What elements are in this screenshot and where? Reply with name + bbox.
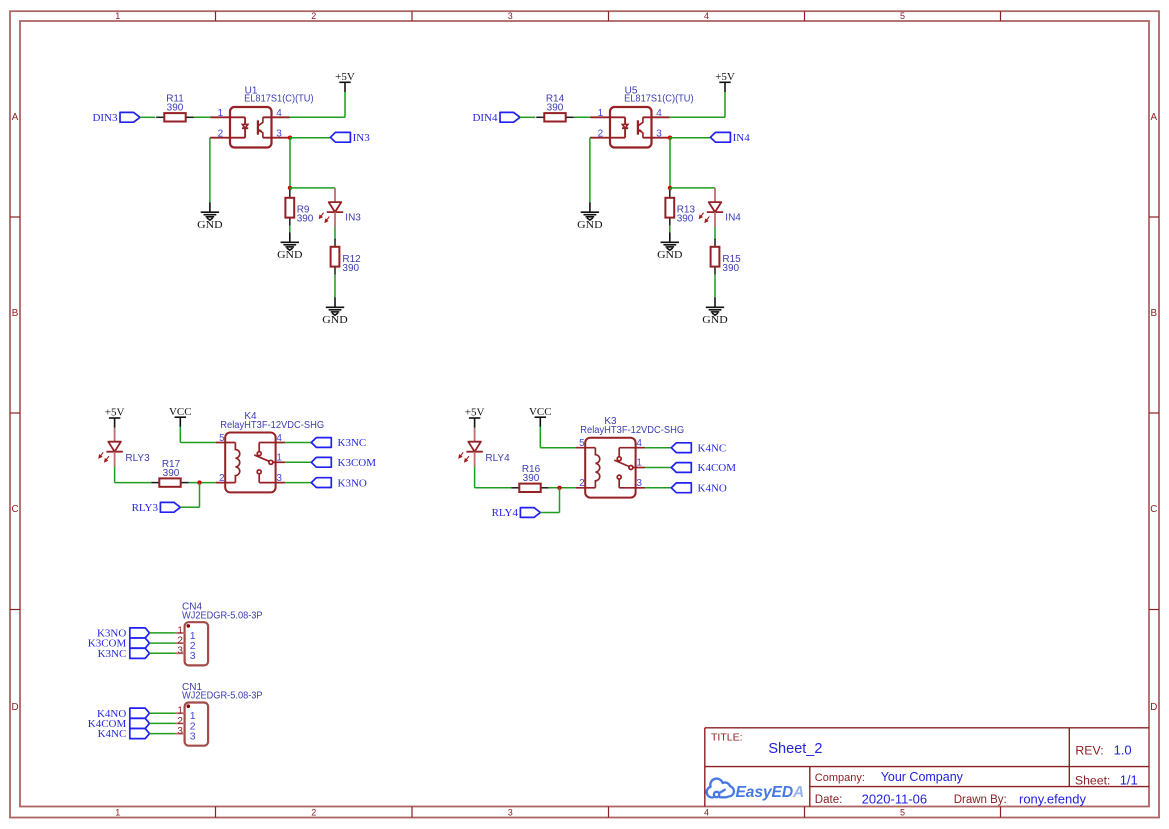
svg-text:RLY4: RLY4 xyxy=(485,453,510,464)
svg-text:5: 5 xyxy=(219,433,225,444)
resistor R9 390 xyxy=(285,190,313,226)
resistor R13 390 xyxy=(665,190,695,226)
wire LED to R xyxy=(714,227,716,240)
title text Company xyxy=(815,770,964,784)
net port K4NC xyxy=(98,728,150,740)
title text REV xyxy=(1075,742,1131,757)
svg-text:D: D xyxy=(11,702,18,713)
wire pin3 to K3NO xyxy=(285,482,311,484)
resistor R16 390 xyxy=(511,464,549,492)
svg-text:K3COM: K3COM xyxy=(338,457,377,469)
resistor R14 390 xyxy=(536,93,574,121)
wire K3COM to pin2 xyxy=(150,642,176,644)
svg-text:390: 390 xyxy=(722,263,739,274)
wire pin1 to K4COM xyxy=(645,467,671,469)
svg-text:+5V: +5V xyxy=(105,407,125,419)
svg-text:EasyEDA: EasyEDA xyxy=(736,784,805,801)
wire junction to R9 xyxy=(289,188,291,190)
wire +5V to U pin4 xyxy=(670,92,726,117)
svg-text:2: 2 xyxy=(579,478,585,489)
wire R to relay pin2 xyxy=(549,487,576,489)
svg-text:4: 4 xyxy=(656,108,662,119)
wire R11 to U pin1 xyxy=(194,116,210,118)
svg-text:2: 2 xyxy=(219,473,225,484)
svg-text:RLY3: RLY3 xyxy=(125,453,150,464)
svg-text:2: 2 xyxy=(311,11,316,21)
wire +5V to U pin4 xyxy=(290,92,346,117)
frame row letters xyxy=(11,112,1157,713)
wire K4NC to pin3 xyxy=(150,733,176,735)
LED RLY4 xyxy=(459,428,510,467)
wire R to GND xyxy=(289,226,291,233)
svg-text:K4NC: K4NC xyxy=(698,442,727,454)
svg-text:Sheet_2: Sheet_2 xyxy=(768,741,822,757)
power +5V xyxy=(715,71,735,92)
svg-text:+5V: +5V xyxy=(465,407,485,419)
svg-text:K4NC: K4NC xyxy=(98,728,127,740)
optocoupler U5 EL817S1(C)(TU) xyxy=(590,86,694,148)
svg-text:Date:: Date: xyxy=(815,794,843,806)
svg-text:GND: GND xyxy=(577,219,602,231)
svg-text:3: 3 xyxy=(636,478,642,489)
frame column numbers xyxy=(115,11,905,818)
resistor R15 390 xyxy=(711,239,742,275)
title block xyxy=(705,728,1149,807)
LED RLY3 xyxy=(99,428,150,467)
title text Sheet 1/1 xyxy=(1075,772,1138,787)
svg-text:RLY4: RLY4 xyxy=(492,507,519,519)
wire R to GND 2 xyxy=(714,275,716,298)
svg-text:K3NC: K3NC xyxy=(338,437,367,449)
svg-text:2: 2 xyxy=(598,128,604,139)
svg-text:VCC: VCC xyxy=(169,406,192,418)
net port RLY4 xyxy=(492,507,541,519)
svg-text:GND: GND xyxy=(277,249,302,261)
net port K4NO xyxy=(671,483,727,495)
svg-text:TITLE:: TITLE: xyxy=(711,731,743,743)
svg-text:A: A xyxy=(1151,112,1158,123)
net port K4COM xyxy=(88,718,150,730)
wire R to GND xyxy=(669,226,671,233)
node junction pin3 xyxy=(668,136,672,140)
svg-text:IN4: IN4 xyxy=(725,212,741,223)
svg-text:390: 390 xyxy=(342,263,359,274)
wire R14 to U pin1 xyxy=(574,116,590,118)
svg-text:3: 3 xyxy=(190,650,196,662)
power VCC xyxy=(529,406,552,427)
wire VCC to relay pin5 xyxy=(540,427,576,448)
svg-text:DIN3: DIN3 xyxy=(92,112,118,124)
net port K3COM xyxy=(88,638,150,650)
svg-text:B: B xyxy=(1151,308,1158,319)
svg-text:C: C xyxy=(1150,504,1157,515)
power +5V (relay) xyxy=(105,407,125,428)
wire junction down xyxy=(289,138,291,188)
svg-text:4: 4 xyxy=(276,108,282,119)
svg-text:RelayHT3F-12VDC-SHG: RelayHT3F-12VDC-SHG xyxy=(220,420,324,431)
node junction RLY xyxy=(557,486,561,490)
svg-text:C: C xyxy=(11,504,18,515)
wire LED to R xyxy=(475,467,512,488)
wire VCC to relay pin5 xyxy=(180,427,216,443)
wire RLY3 to junction xyxy=(180,483,199,508)
wire LED to R xyxy=(334,227,336,240)
svg-text:1: 1 xyxy=(218,108,224,119)
svg-text:VCC: VCC xyxy=(529,406,552,418)
wire R to GND 2 xyxy=(334,275,336,298)
resistor R11 390 xyxy=(156,93,194,121)
svg-text:Your Company: Your Company xyxy=(881,770,964,784)
wire pin1 to K3COM xyxy=(285,461,311,463)
svg-text:WJ2EDGR-5.08-3P: WJ2EDGR-5.08-3P xyxy=(182,691,263,702)
svg-text:EL817S1(C)(TU): EL817S1(C)(TU) xyxy=(624,94,694,105)
wire junction down xyxy=(669,138,671,188)
svg-text:GND: GND xyxy=(197,219,222,231)
svg-text:5: 5 xyxy=(900,808,905,818)
ground GND (R) xyxy=(277,232,302,261)
wire K4COM to pin2 xyxy=(150,722,176,724)
svg-text:WJ2EDGR-5.08-3P: WJ2EDGR-5.08-3P xyxy=(182,610,263,621)
power +5V (relay) xyxy=(465,407,485,428)
svg-text:Sheet:: Sheet: xyxy=(1075,774,1111,788)
svg-text:3: 3 xyxy=(177,646,183,657)
svg-text:REV:: REV: xyxy=(1075,744,1103,758)
svg-text:rony.efendy: rony.efendy xyxy=(1019,791,1086,806)
ground GND (pin2) xyxy=(197,202,222,231)
svg-text:K3NC: K3NC xyxy=(98,648,127,660)
svg-text:IN3: IN3 xyxy=(345,212,361,223)
svg-text:A: A xyxy=(12,112,19,123)
ground GND (R) xyxy=(657,232,682,261)
frame row ticks xyxy=(10,217,1159,610)
wire RLY4 to junction xyxy=(540,488,559,513)
svg-text:+5V: +5V xyxy=(335,71,355,83)
net port IN3 xyxy=(330,132,370,144)
ground GND (pin2) xyxy=(577,202,602,231)
power +5V xyxy=(335,71,355,92)
svg-text:+5V: +5V xyxy=(715,71,735,83)
svg-text:2: 2 xyxy=(218,128,224,139)
svg-text:GND: GND xyxy=(657,249,682,261)
ground GND (LED R) xyxy=(702,297,727,326)
svg-text:390: 390 xyxy=(297,214,314,225)
svg-text:RLY3: RLY3 xyxy=(132,502,159,514)
svg-text:1: 1 xyxy=(115,808,120,818)
svg-text:4: 4 xyxy=(704,808,709,818)
svg-text:5: 5 xyxy=(900,11,905,21)
ground GND (LED R) xyxy=(322,297,347,326)
relay K3 RelayHT3F-12VDC-SHG xyxy=(576,416,684,498)
svg-text:1: 1 xyxy=(636,458,642,469)
wire junction to R13 xyxy=(669,188,671,190)
svg-text:K4NO: K4NO xyxy=(698,483,727,495)
svg-text:K4COM: K4COM xyxy=(698,462,737,474)
svg-text:3: 3 xyxy=(276,128,282,139)
wire pin3 to K4NO xyxy=(645,487,671,489)
svg-text:390: 390 xyxy=(167,102,184,113)
node junction pin3 xyxy=(288,136,292,140)
wire pin3 to IN4 xyxy=(670,137,710,139)
relay K4 RelayHT3F-12VDC-SHG xyxy=(216,411,324,493)
svg-text:K3NO: K3NO xyxy=(338,477,367,489)
svg-text:1/1: 1/1 xyxy=(1120,772,1138,787)
svg-text:D: D xyxy=(1150,702,1157,713)
net port K4NC xyxy=(671,442,726,454)
net port IN4 xyxy=(710,132,750,144)
svg-text:IN3: IN3 xyxy=(353,132,371,144)
svg-text:5: 5 xyxy=(579,438,585,449)
LED IN3 xyxy=(319,188,361,227)
wire DIN4 to R14 xyxy=(520,116,535,118)
svg-text:2: 2 xyxy=(311,808,316,818)
svg-text:3: 3 xyxy=(190,731,196,743)
wire K4NO to pin1 xyxy=(150,712,176,714)
svg-text:EL817S1(C)(TU): EL817S1(C)(TU) xyxy=(244,94,314,105)
svg-text:1: 1 xyxy=(276,452,282,463)
power VCC xyxy=(169,406,192,427)
svg-text:Company:: Company: xyxy=(815,772,865,784)
svg-text:1: 1 xyxy=(598,108,604,119)
svg-text:390: 390 xyxy=(677,214,694,225)
svg-text:1: 1 xyxy=(115,11,120,21)
svg-text:3: 3 xyxy=(276,473,282,484)
wire K3NO to pin1 xyxy=(150,632,176,634)
net port K4COM xyxy=(671,462,736,474)
connector CN4 WJ2EDGR-5.08-3P xyxy=(176,602,263,666)
net port K3NC xyxy=(311,437,366,449)
net port DIN3 xyxy=(92,112,140,124)
wire junction to LED IN4 xyxy=(670,187,715,189)
net port K3COM xyxy=(311,457,376,469)
svg-text:390: 390 xyxy=(163,468,180,479)
node junction 2 xyxy=(668,186,672,190)
svg-text:GND: GND xyxy=(322,314,347,326)
net port RLY3 xyxy=(132,502,181,514)
title text Date xyxy=(815,791,927,806)
optocoupler U1 EL817S1(C)(TU) xyxy=(210,86,314,148)
net port K3NC xyxy=(98,648,150,660)
svg-text:390: 390 xyxy=(547,102,564,113)
svg-text:3: 3 xyxy=(656,128,662,139)
svg-text:4: 4 xyxy=(276,433,282,444)
wire R to relay pin2 xyxy=(189,482,216,484)
wire pin4 to K4NC xyxy=(645,447,671,449)
svg-text:2020-11-06: 2020-11-06 xyxy=(862,791,928,806)
svg-text:Drawn By:: Drawn By: xyxy=(954,794,1007,806)
connector CN1 WJ2EDGR-5.08-3P xyxy=(176,682,263,746)
svg-text:3: 3 xyxy=(508,808,513,818)
LED IN4 xyxy=(699,188,741,227)
node junction 2 xyxy=(288,186,292,190)
net port K4NO xyxy=(97,708,150,720)
svg-text:IN4: IN4 xyxy=(733,132,751,144)
svg-text:GND: GND xyxy=(702,314,727,326)
node junction RLY xyxy=(197,480,201,484)
resistor R12 390 xyxy=(331,239,362,275)
svg-text:B: B xyxy=(12,308,19,319)
wire U pin2 down xyxy=(209,138,211,203)
svg-text:DIN4: DIN4 xyxy=(472,112,498,124)
svg-text:4: 4 xyxy=(704,11,709,21)
wire LED to R xyxy=(115,467,152,483)
wire K3NC to pin3 xyxy=(150,652,176,654)
net port K3NO xyxy=(311,477,367,489)
svg-text:4: 4 xyxy=(636,438,642,449)
svg-text:1.0: 1.0 xyxy=(1114,742,1132,757)
wire U pin2 down xyxy=(589,138,591,203)
frame column ticks xyxy=(216,11,1001,817)
net port K3NO xyxy=(97,628,150,640)
net port DIN4 xyxy=(472,112,520,124)
resistor R17 390 xyxy=(151,459,189,487)
svg-text:390: 390 xyxy=(523,473,540,484)
wire pin3 to IN3 xyxy=(290,137,330,139)
wire pin4 to K3NC xyxy=(285,442,311,444)
wire DIN3 to R11 xyxy=(140,116,155,118)
svg-text:3: 3 xyxy=(508,11,513,21)
wire junction to LED IN3 xyxy=(290,187,335,189)
EasyEDA logo xyxy=(707,779,734,798)
svg-text:3: 3 xyxy=(177,726,183,737)
title text Drawn By xyxy=(954,791,1087,806)
svg-text:RelayHT3F-12VDC-SHG: RelayHT3F-12VDC-SHG xyxy=(580,425,684,436)
